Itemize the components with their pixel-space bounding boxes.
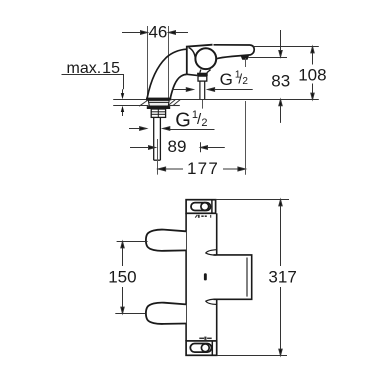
handle knob circle [195,48,216,69]
dimension 83 [279,30,282,123]
body right edge lower [216,300,218,341]
top level extension line [253,46,318,48]
177 right extension line [245,58,247,67]
svg-text:150: 150 [108,268,136,287]
svg-text:G: G [175,110,191,132]
317 reference line bottom [217,355,287,357]
shank axis extension [157,139,159,175]
body centre dash [204,273,207,280]
top union box [186,200,216,214]
bottom union box [186,341,217,355]
pipe axis below deck [202,99,204,108]
dimension 317 [279,200,282,356]
svg-text:89: 89 [168,137,187,156]
spout outlet level tick [249,57,288,59]
150 reference line bottom [115,313,145,315]
150 reference line top [117,241,148,243]
head fillet curve [189,48,196,59]
washer wedge under deck [148,100,169,106]
svg-text:46: 46 [148,23,167,42]
top grip [146,230,186,251]
spout outer body curve [147,49,187,98]
housing inner right line [246,258,248,297]
dimension 150 [121,242,124,314]
neck below knob [200,70,211,73]
G1/2 lower arrows [129,127,215,131]
cartridge head block [187,45,213,75]
svg-text:2: 2 [242,76,248,87]
G1/2 upper arrows [172,88,253,92]
dimension 89 [130,142,225,152]
svg-text:108: 108 [298,65,326,84]
bottom box circle [201,344,209,352]
svg-text:317: 317 [268,268,296,287]
inlet pipe G1/2 [200,81,205,99]
connection nut body [198,76,207,81]
top box stadium [191,203,211,211]
dimension 46 extension lines [148,26,169,99]
svg-text:2: 2 [201,117,207,129]
deck hatching [139,100,180,107]
lever top edge [214,45,255,59]
dimension 46 arrows [122,31,188,35]
dimension 177 [158,167,246,171]
dimension 108 [311,47,314,100]
spout inner body curve [170,74,186,97]
svg-text:G: G [220,70,233,89]
max.15 leader underline [62,75,124,90]
horseshoe flange dark bar [147,106,170,109]
deck top line [113,99,319,101]
body left edge [185,213,187,341]
deck bottom line [113,105,180,107]
bottom indicator marks [199,337,211,340]
top box circle [201,203,209,211]
bottom lip [206,299,217,304]
max.15 arrows [121,89,124,116]
svg-text:83: 83 [271,71,290,90]
spout outlet bump [241,56,248,60]
base flange dark bar [146,98,171,101]
connection nut dark [197,73,208,76]
bottom grip [146,303,186,324]
threaded shank [154,117,161,160]
svg-text:177: 177 [187,159,219,178]
body right edge upper [216,213,218,254]
317 reference line top [216,199,289,201]
bottom box stadium [190,344,211,353]
locknut [151,109,165,117]
top indicator marks [195,215,211,218]
top lip [206,250,217,255]
right spout housing [214,255,252,299]
